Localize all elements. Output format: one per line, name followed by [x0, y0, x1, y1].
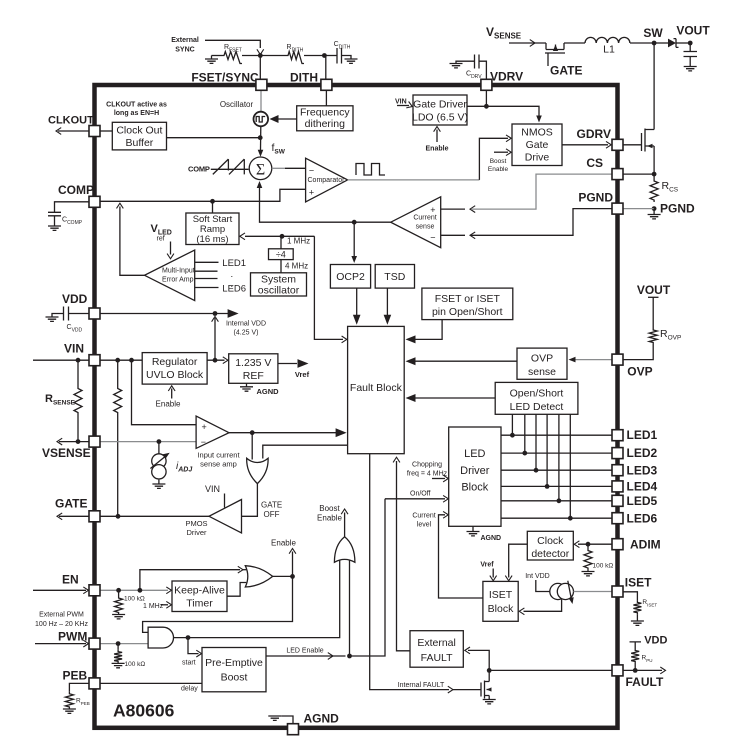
wire OCP2 to Fault Block — [353, 288, 361, 325]
svg-text:freq = 4 MHz: freq = 4 MHz — [407, 471, 448, 478]
svg-text:Gate Driver: Gate Driver — [413, 99, 467, 111]
pin LED5 — [612, 495, 623, 506]
wire start input to Pre-Emptive Boost — [182, 638, 202, 667]
node ADIM pulldown — [586, 542, 591, 547]
svg-text:Current: Current — [413, 215, 436, 222]
node CS junction — [652, 172, 657, 177]
svg-text:GATE: GATE — [55, 497, 87, 511]
label A80606 — [113, 701, 175, 721]
wire 1MHz to Soft Start Ramp — [240, 233, 315, 240]
svg-text:PWM: PWM — [58, 630, 87, 644]
wire system oscillator to divider — [280, 260, 282, 273]
wire LED Enable — [266, 648, 346, 660]
wire LED detect sense line 4 — [545, 414, 550, 489]
wire clock detector to ISET block — [505, 544, 527, 581]
pin PWM — [89, 638, 100, 649]
svg-text:−: − — [309, 166, 314, 176]
wire SW node down to ext NMOS drain — [653, 43, 655, 130]
pin AGND — [288, 724, 299, 735]
svg-text:+: + — [430, 205, 435, 215]
wire current mirror to ISET pin — [574, 591, 613, 593]
svg-text:Current: Current — [412, 513, 435, 520]
svg-text:Enable: Enable — [156, 400, 181, 409]
box TSD — [375, 265, 414, 289]
svg-text:L1: L1 — [603, 44, 615, 56]
current mirror (ISET) — [550, 581, 574, 604]
svg-text:Boost: Boost — [490, 158, 507, 165]
label 1 MHz (keep-alive) — [143, 601, 172, 610]
svg-text:A80606: A80606 — [113, 701, 175, 721]
label VDRV pin — [490, 70, 523, 84]
svg-text:Internal FAULT: Internal FAULT — [398, 682, 445, 689]
label f_SW — [272, 142, 286, 156]
wire current level from ISET block — [439, 511, 483, 598]
svg-text:Block: Block — [461, 482, 488, 494]
wire LED6 channel to pin — [501, 517, 612, 519]
label Chopping freq — [407, 462, 448, 478]
node enable — [290, 574, 295, 579]
label 1 MHz — [287, 237, 310, 246]
wire LED4 channel to pin — [501, 485, 612, 487]
wire fault to OR-down right input — [263, 445, 348, 458]
svg-text:ISET: ISET — [625, 576, 652, 590]
wire PGND pin to node — [623, 208, 654, 210]
wire fault-block to external-fault detect — [393, 457, 410, 651]
wire LED3 channel to pin — [501, 469, 612, 471]
resistor R_PU — [631, 649, 652, 671]
wire external EN — [33, 587, 89, 594]
ground (R_FSET) — [205, 56, 218, 64]
label CS — [586, 156, 603, 170]
VDD pullup tap — [630, 635, 668, 649]
OR gate (EN/keep-alive) — [245, 566, 272, 587]
resistor R_PEB — [65, 683, 89, 709]
wire LED detect to Fault Block — [406, 394, 496, 402]
pin COMP — [89, 196, 100, 207]
wire LED enable to boost OR — [349, 561, 351, 657]
svg-text:On/Off: On/Off — [410, 491, 431, 498]
Vref output arrow — [278, 359, 310, 379]
svg-text:GDRV: GDRV — [577, 127, 611, 141]
box LED Driver Block — [449, 427, 501, 526]
svg-text:sense: sense — [528, 366, 556, 378]
wire EN to OR gate — [140, 566, 246, 590]
node current sense to OCP2 — [352, 220, 357, 225]
svg-text:+: + — [202, 422, 207, 432]
svg-text:Buffer: Buffer — [125, 137, 153, 149]
svg-text:ADIM: ADIM — [630, 538, 661, 552]
label ADIM pin — [630, 538, 661, 552]
svg-text:NMOS: NMOS — [521, 127, 553, 139]
wire Regulator to 1.235V REF — [207, 357, 228, 364]
label LED6 pin — [627, 511, 658, 525]
svg-text:PEB: PEB — [63, 669, 88, 683]
error amp input mid1 — [195, 269, 233, 280]
label PWM pin — [58, 630, 87, 644]
wire FSET/SYNC pin to oscillator — [260, 90, 262, 112]
pin ADIM — [612, 539, 623, 550]
svg-text:OCP2: OCP2 — [336, 271, 365, 283]
transistor external NMOS (boost FET) — [623, 129, 654, 180]
wire FSET node to FSET/SYNC pin — [259, 56, 261, 80]
capacitor C_VDD — [52, 307, 89, 334]
svg-text:Clock Out: Clock Out — [116, 125, 162, 137]
pin EN — [89, 585, 100, 596]
pin FAULT — [612, 665, 623, 676]
label VSENSE pin — [42, 446, 91, 460]
svg-text:GATE: GATE — [550, 64, 582, 78]
svg-text:Gate: Gate — [526, 139, 549, 151]
label VOUT (OVP) — [637, 283, 671, 297]
ground (C_DRV) — [450, 64, 463, 68]
diode D1 (schottky) — [654, 39, 690, 48]
svg-text:AGND: AGND — [304, 712, 340, 726]
capacitor output at VOUT — [684, 43, 698, 67]
note CLKOUT active — [106, 102, 167, 118]
ground (PGND) — [648, 209, 661, 219]
label GATE OFF — [261, 501, 282, 520]
box External FAULT — [410, 631, 463, 668]
box Fault Block — [348, 326, 405, 453]
comparator U-comp — [306, 158, 348, 202]
ground AGND (bottom pin) — [268, 712, 339, 726]
svg-text:Vref: Vref — [480, 562, 494, 569]
svg-text:SW: SW — [643, 26, 663, 40]
box Frequency dithering — [297, 106, 353, 131]
node FAULT pullup — [633, 668, 638, 673]
svg-text:VDRV: VDRV — [490, 70, 523, 84]
wire AND output — [174, 561, 340, 638]
svg-text:Enable: Enable — [488, 166, 509, 173]
pin GATE — [89, 511, 100, 522]
svg-text:VIN: VIN — [395, 99, 407, 106]
svg-text:Open/Short: Open/Short — [510, 388, 564, 400]
wire PMOS driver to GATE pin — [100, 515, 209, 517]
svg-text:VOUT: VOUT — [637, 283, 671, 297]
label V_LED ref — [151, 223, 172, 243]
wire CS pin to RCS node — [623, 173, 654, 175]
svg-text:CLKOUT active as: CLKOUT active as — [106, 102, 167, 109]
wire VIN to input amp plus — [132, 360, 197, 425]
svg-text:LED1: LED1 — [222, 258, 246, 269]
pin LED6 — [612, 513, 623, 524]
wire COMP node to Soft Start Ramp — [212, 201, 214, 213]
label VIN (PMOS driver) — [205, 484, 220, 494]
wire VSENSE to PMOS source — [509, 40, 546, 47]
ground (ADIM 100k) — [582, 572, 595, 576]
svg-text:Regulator: Regulator — [152, 356, 198, 368]
ground (fault NMOS) — [483, 700, 496, 704]
svg-text:Input current: Input current — [197, 451, 240, 460]
svg-text:PMOS: PMOS — [185, 519, 207, 528]
svg-text:level: level — [417, 522, 432, 529]
OR gate (gate-off, pointing down) — [247, 458, 268, 483]
oscillator (square-wave symbol) — [220, 100, 268, 126]
svg-text:LED6: LED6 — [222, 284, 246, 295]
label On/Off — [410, 491, 431, 498]
label COMP pin — [58, 183, 94, 197]
wire Clock Out Buffer to pin — [100, 130, 112, 132]
resistor 100k (PWM) — [114, 644, 145, 668]
pin ISET — [612, 586, 623, 597]
svg-text:Oscillator: Oscillator — [220, 100, 254, 109]
IC boundary A80606 — [95, 85, 618, 728]
box OCP2 — [330, 265, 370, 289]
label Current level — [412, 513, 435, 529]
svg-text:100 Hz – 20 KHz: 100 Hz – 20 KHz — [35, 621, 88, 628]
svg-text:100 kΩ: 100 kΩ — [125, 661, 146, 668]
inductor L1 — [564, 37, 630, 55]
svg-text:Drive: Drive — [525, 152, 550, 164]
wire comparator output to NMOS gate drive — [348, 135, 512, 180]
wire VSENSE to left (arrow) — [57, 438, 89, 445]
svg-text:ref: ref — [157, 236, 165, 243]
wire OVP pin to OVP sense — [569, 357, 613, 363]
label delay — [181, 686, 198, 693]
label PEB pin — [63, 669, 88, 683]
resistor R_DITH — [260, 44, 324, 64]
svg-text:long as EN=H: long as EN=H — [114, 110, 159, 117]
pin FSET/SYNC — [256, 79, 267, 90]
wire LED2 channel to pin — [501, 452, 612, 454]
box Open/Short LED Detect — [495, 382, 578, 414]
svg-text:start: start — [182, 660, 196, 667]
svg-text:1 MHz: 1 MHz — [287, 237, 310, 246]
svg-text:sense: sense — [416, 224, 435, 231]
label EN pin — [62, 573, 79, 587]
svg-text:detector: detector — [531, 548, 569, 560]
svg-text:DITH: DITH — [290, 71, 318, 85]
svg-text:LED3: LED3 — [627, 463, 658, 477]
wire DITH pin to Frequency dithering box — [325, 90, 327, 106]
svg-text:VIN: VIN — [64, 342, 84, 356]
svg-text:CS: CS — [586, 156, 603, 170]
wire VIN to PMOS driver — [224, 494, 226, 508]
wire current sense output to sigma — [257, 181, 391, 222]
label GATE (external FET gate) — [550, 64, 582, 78]
pin CLKOUT — [89, 126, 100, 137]
box Clock Out Buffer — [112, 122, 166, 150]
svg-text:VIN: VIN — [205, 484, 220, 494]
pin DITH — [321, 79, 332, 90]
pin LED2 — [612, 448, 623, 459]
node LDO output — [484, 104, 489, 109]
box Soft Start Ramp — [186, 213, 239, 245]
wire TSD to Fault Block — [384, 288, 392, 325]
svg-text:EN: EN — [62, 573, 79, 587]
svg-text:Int VDD: Int VDD — [525, 573, 550, 580]
node PGND junction — [652, 206, 657, 211]
pin OVP — [612, 354, 623, 365]
label Vref (ISET) — [480, 562, 494, 569]
pin VSENSE — [89, 436, 100, 447]
node SW — [643, 26, 663, 45]
svg-text:FSET/SYNC: FSET/SYNC — [191, 71, 259, 85]
label ISET pin — [625, 576, 652, 590]
svg-text:Driver: Driver — [187, 528, 208, 537]
svg-text:LED: LED — [464, 448, 485, 460]
wire LED detect sense line 3 — [534, 414, 539, 472]
svg-text:VSENSE: VSENSE — [42, 446, 91, 460]
current source i_ADJ — [150, 442, 193, 484]
label Internal VDD 4.25V — [226, 321, 266, 337]
svg-text:Multi-Input: Multi-Input — [162, 268, 195, 275]
pin LED1 — [612, 430, 623, 441]
node i_ADJ tap — [157, 439, 162, 444]
wire COMP line to comparator plus — [100, 189, 306, 201]
svg-text:Chopping: Chopping — [412, 462, 442, 469]
svg-text:Σ: Σ — [256, 162, 265, 179]
pin PGND — [612, 203, 623, 214]
resistor 100k (ADIM) — [584, 544, 613, 571]
svg-text:LED2: LED2 — [627, 446, 658, 460]
wire GATE pin to left (arrow) — [57, 513, 89, 520]
node AND output branch — [186, 635, 191, 640]
svg-text:LDO (6.5 V): LDO (6.5 V) — [412, 112, 468, 124]
node FAULT drain — [487, 668, 492, 673]
label LED4 pin — [627, 479, 658, 493]
label OVP pin — [627, 365, 652, 379]
node internal VDD — [213, 311, 218, 316]
label PGND external — [660, 202, 695, 216]
pin GDRV — [612, 139, 623, 150]
error amp input LED6 — [195, 284, 246, 295]
wire internal FAULT — [370, 454, 481, 693]
wire FAULT node to External FAULT — [465, 647, 489, 670]
wire external PWM — [35, 640, 89, 647]
svg-text:VDD: VDD — [62, 292, 88, 306]
svg-text:OVP: OVP — [627, 365, 652, 379]
transistor external PMOS switch — [545, 43, 565, 66]
node GATE internal — [116, 514, 121, 519]
label COMP (ramp input) — [188, 165, 210, 174]
label FSET/SYNC pin — [191, 71, 259, 85]
ground (C_COMP) — [48, 226, 61, 230]
node divider output — [280, 234, 285, 239]
svg-text:Frequency: Frequency — [300, 107, 350, 119]
svg-text:Internal VDD: Internal VDD — [226, 321, 266, 328]
wire CLKOUT pin to left (output arrow) — [56, 128, 89, 135]
wire EN pin to keep-alive timer — [100, 587, 172, 594]
box Pre-Emptive Boost — [202, 648, 266, 692]
box System oscillator — [251, 273, 307, 297]
wire LED5 channel to pin — [501, 500, 612, 502]
resistor internal sense (VIN to GATE) — [114, 360, 122, 516]
svg-text:LED Enable: LED Enable — [286, 648, 323, 655]
svg-text:sense amp: sense amp — [200, 460, 237, 469]
svg-text:Boost: Boost — [221, 672, 248, 684]
label GATE pin — [55, 497, 87, 511]
wire VSENSE pin to input amp minus — [100, 441, 196, 443]
svg-text:VDD: VDD — [644, 635, 667, 647]
pin VIN — [89, 355, 100, 366]
svg-text:OVP: OVP — [531, 353, 553, 365]
ground (PWM 100k) — [112, 663, 125, 667]
wire OR output — [273, 575, 293, 577]
label GDRV — [577, 127, 611, 141]
svg-text:1 MHz: 1 MHz — [143, 603, 164, 610]
svg-text:TSD: TSD — [384, 271, 405, 283]
wire OVP sense to Fault Block — [406, 357, 518, 365]
node COMP to soft-start — [210, 199, 215, 204]
svg-text:dithering: dithering — [305, 118, 345, 130]
label LED2 pin — [627, 446, 658, 460]
label FAULT pin — [626, 675, 664, 689]
svg-text:GATE: GATE — [261, 501, 282, 510]
summing node sigma — [249, 157, 272, 180]
svg-text:Driver: Driver — [460, 465, 490, 477]
svg-text:VOUT: VOUT — [676, 24, 710, 38]
pin VDD — [89, 308, 100, 319]
boost enable arrow up — [317, 504, 348, 537]
label LED1 pin — [627, 428, 658, 442]
svg-text:1.235 V: 1.235 V — [235, 357, 271, 369]
label LED5 pin — [627, 494, 658, 508]
pin PEB — [89, 678, 100, 689]
svg-text:Timer: Timer — [186, 598, 213, 610]
ground AGND (REF) — [240, 383, 279, 396]
box FSET or ISET pin Open/Short — [422, 288, 513, 320]
pin LED4 — [612, 481, 623, 492]
svg-text:External: External — [417, 637, 456, 649]
wire LED detect sense line 2 — [522, 414, 527, 455]
capacitor C_DRV — [456, 55, 486, 81]
label LED3 pin — [627, 463, 658, 477]
box ISET Block — [483, 581, 518, 621]
op-amp current sense — [391, 197, 441, 248]
svg-text:COMP: COMP — [58, 183, 94, 197]
box 1.235 V REF — [229, 354, 278, 384]
node VIN-RSENSE — [76, 358, 81, 363]
wire DITH node to DITH pin — [324, 56, 325, 80]
wire LED1 channel to pin — [501, 434, 612, 436]
wire LED detect sense line 1 — [510, 414, 515, 437]
wire PWM pin to AND gate — [100, 643, 148, 645]
capacitor C_DITH — [324, 41, 351, 64]
box NMOS Gate Drive — [512, 124, 562, 166]
wire Frequency dithering to oscillator — [270, 115, 297, 123]
wire FSET-ISET box to Fault Block — [406, 320, 443, 344]
wire L1 to SW node — [630, 42, 654, 44]
op-amp Multi-Input Error Amp — [145, 250, 195, 301]
wire keep-alive to OR gate — [227, 583, 246, 597]
node regulator output — [213, 358, 218, 363]
error amp input mid2 — [195, 279, 233, 291]
box OVP sense — [517, 348, 567, 379]
wire gate drive to GDRV pin — [562, 141, 611, 148]
pin VDRV — [481, 79, 492, 90]
enable arrow up — [271, 539, 296, 577]
wire V_LED ref to error amp — [167, 242, 174, 259]
wire VDD pin to internal VDD — [100, 309, 239, 318]
svg-text:External: External — [171, 37, 199, 44]
svg-text:Error Amp: Error Amp — [162, 277, 194, 284]
node oscillator output — [258, 135, 263, 140]
sawtooth ramp symbol — [211, 159, 249, 174]
wire external VIN — [33, 359, 89, 361]
pin LED3 — [612, 465, 623, 476]
boost enable into NMOS gate drive — [488, 149, 511, 173]
svg-text:ISET: ISET — [489, 589, 513, 601]
wire 1MHz to Fault Block — [314, 236, 346, 342]
svg-text:Block: Block — [488, 603, 514, 615]
node DITH junction — [322, 53, 327, 58]
ground (i_ADJ) — [152, 484, 165, 488]
svg-text:Fault Block: Fault Block — [350, 382, 403, 394]
svg-text:LED4: LED4 — [627, 479, 658, 493]
arrow chopping freq input — [432, 475, 448, 482]
svg-text:FSET or ISET: FSET or ISET — [435, 293, 501, 305]
